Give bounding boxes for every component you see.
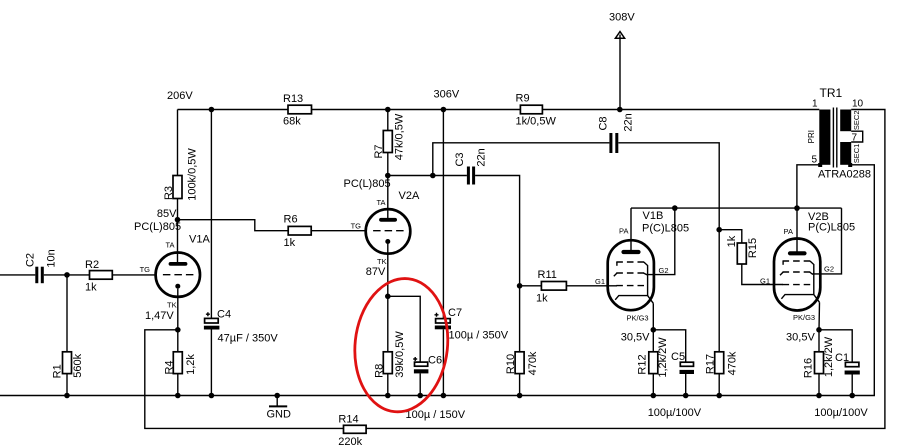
svg-text:R17: R17 [705, 354, 717, 374]
svg-text:1k: 1k [536, 293, 548, 305]
svg-text:TA: TA [165, 241, 174, 250]
tube V1B P(C)L805 pentode [595, 208, 689, 322]
svg-text:100µ/100V: 100µ/100V [648, 407, 702, 419]
wire C6 branch [388, 296, 420, 362]
resistor R10 [515, 352, 524, 374]
svg-text:220k: 220k [338, 436, 362, 447]
svg-text:TK: TK [377, 257, 387, 266]
ground GND symbol [267, 396, 292, 421]
svg-text:560k: 560k [72, 353, 84, 377]
node R15 junction [716, 227, 722, 233]
svg-text:R1: R1 [52, 364, 64, 378]
svg-text:C7: C7 [448, 307, 462, 319]
svg-text:R13: R13 [283, 93, 303, 105]
wire 85V to R6 jog [178, 220, 366, 231]
resistor R8 [383, 352, 392, 374]
svg-text:G1: G1 [595, 277, 605, 286]
svg-text:TA: TA [376, 198, 385, 207]
svg-text:C5: C5 [671, 351, 685, 363]
svg-text:PC(L)805: PC(L)805 [134, 221, 181, 233]
svg-text:206V: 206V [167, 90, 193, 102]
node rail junctions [64, 393, 855, 399]
svg-text:SEC2: SEC2 [852, 111, 861, 131]
resistor R6 [288, 226, 311, 235]
svg-text:R6: R6 [284, 214, 298, 226]
svg-text:G1: G1 [760, 277, 770, 286]
svg-text:R14: R14 [338, 413, 358, 425]
svg-text:PC(L)805: PC(L)805 [344, 178, 391, 190]
wire V2B cathode column [818, 302, 821, 395]
svg-text:1k: 1k [85, 282, 97, 294]
svg-text:SEC1: SEC1 [852, 144, 861, 164]
svg-text:V1A: V1A [189, 234, 210, 246]
svg-text:PA: PA [619, 227, 628, 236]
wire V1A plate column [177, 110, 179, 265]
wire C8 row [433, 143, 610, 176]
svg-text:R16: R16 [803, 358, 815, 378]
wire feedback loop [145, 110, 885, 429]
power 308V arrow [609, 12, 635, 113]
capacitor C4 [204, 309, 278, 345]
svg-text:C2: C2 [25, 253, 37, 267]
wire input [0, 274, 35, 276]
transformer TR1 [807, 86, 871, 181]
tube V2B P(C)L805 pentode [760, 208, 855, 322]
svg-text:470k: 470k [727, 351, 739, 375]
capacitor C6 [413, 355, 442, 374]
svg-text:V2A: V2A [399, 190, 420, 202]
resistor R1 [52, 275, 85, 396]
svg-text:TK: TK [167, 300, 177, 309]
svg-text:R8: R8 [374, 364, 386, 378]
svg-text:R9: R9 [516, 93, 530, 105]
svg-text:100µ / 350V: 100µ / 350V [449, 330, 509, 342]
capacitor C1 [835, 352, 860, 375]
svg-text:TR1: TR1 [820, 86, 843, 100]
resistor R15 [719, 230, 783, 285]
resistor R2 [90, 271, 113, 280]
node R11 junction [517, 283, 523, 289]
node V2A plate junction [385, 173, 391, 179]
svg-text:TG: TG [351, 222, 362, 231]
svg-text:1,2k/2W: 1,2k/2W [823, 336, 835, 377]
svg-text:C8: C8 [598, 116, 610, 130]
node 85V junction [175, 217, 181, 223]
svg-text:R3: R3 [163, 186, 175, 200]
svg-text:10n: 10n [46, 249, 58, 267]
svg-text:100µ/100V: 100µ/100V [814, 407, 868, 419]
tube V2A PC(L)805 triode [344, 178, 420, 278]
svg-text:R15: R15 [747, 238, 759, 258]
wire V2A cathode column [387, 242, 389, 396]
wire C7 branch [442, 110, 444, 319]
svg-text:470k: 470k [527, 351, 539, 375]
wire C4 branch [210, 110, 212, 319]
svg-text:V1B: V1B [643, 210, 664, 222]
svg-text:1,47V: 1,47V [145, 310, 174, 322]
svg-text:P(C)L805: P(C)L805 [808, 222, 855, 234]
svg-text:PRI: PRI [807, 130, 816, 143]
svg-text:10: 10 [852, 99, 864, 110]
wire C5 branch [653, 330, 685, 362]
resistor R7 [383, 131, 392, 153]
resistor R13 [288, 105, 312, 114]
svg-text:C6: C6 [428, 355, 442, 367]
ground rail [0, 165, 874, 396]
svg-text:30,5V: 30,5V [621, 332, 650, 344]
svg-text:ATRA0288: ATRA0288 [818, 169, 871, 181]
svg-text:GND: GND [267, 409, 292, 421]
wire top rail 206V/306V/308V [178, 109, 820, 111]
resistor R9 [520, 105, 542, 114]
svg-text:R12: R12 [637, 354, 649, 374]
svg-text:TG: TG [140, 265, 151, 274]
svg-text:68k: 68k [283, 116, 301, 128]
svg-text:R4: R4 [164, 360, 176, 374]
svg-text:1,2k/2W: 1,2k/2W [657, 337, 669, 378]
svg-text:C4: C4 [217, 309, 231, 321]
resistor R11 [520, 269, 617, 305]
svg-text:7: 7 [851, 133, 857, 144]
capacitor C3 [454, 148, 488, 184]
wire V1B cathode column [652, 303, 654, 395]
svg-text:5: 5 [811, 155, 817, 166]
node 306V [441, 107, 447, 113]
resistor R4 [173, 352, 182, 374]
wire C1 branch [819, 330, 852, 362]
svg-text:47k/0,5W: 47k/0,5W [394, 113, 406, 160]
svg-text:R7: R7 [373, 144, 385, 158]
svg-text:G2: G2 [659, 266, 669, 275]
capacitor C7 [435, 307, 509, 342]
capacitor C5 [671, 351, 694, 374]
wire plate rail V1B/V2B [631, 207, 842, 209]
svg-text:1,2k: 1,2k [185, 354, 197, 375]
resistor R12 [649, 352, 658, 374]
svg-text:PK/G3: PK/G3 [627, 314, 649, 323]
svg-text:47µF / 350V: 47µF / 350V [218, 332, 279, 344]
svg-text:1: 1 [812, 99, 818, 110]
svg-text:PK/G3: PK/G3 [793, 313, 815, 322]
svg-text:PA: PA [784, 227, 793, 236]
svg-text:G2: G2 [824, 265, 834, 274]
resistor R3 [173, 176, 182, 199]
svg-text:85V: 85V [157, 208, 177, 220]
svg-text:87V: 87V [366, 266, 386, 278]
wire V1B G2 connection [646, 208, 675, 275]
svg-text:R11: R11 [538, 269, 557, 281]
svg-text:306V: 306V [434, 89, 460, 101]
wire V1A cathode column [177, 289, 179, 396]
svg-text:C1: C1 [835, 352, 849, 364]
svg-text:C3: C3 [454, 152, 466, 166]
svg-text:R2: R2 [85, 259, 99, 271]
svg-text:R10: R10 [505, 354, 517, 374]
resistor R16 [815, 352, 824, 374]
svg-text:100µ / 150V: 100µ / 150V [406, 409, 466, 421]
wire R7 column [387, 110, 389, 221]
svg-text:22n: 22n [476, 148, 488, 166]
wire TR1 pin5 to plates [797, 165, 819, 208]
wire C3 row [388, 175, 467, 177]
svg-text:1k/0,5W: 1k/0,5W [516, 116, 557, 128]
resistor R14 [344, 425, 367, 433]
svg-text:1k: 1k [726, 235, 738, 247]
svg-text:30,5V: 30,5V [786, 332, 815, 344]
svg-text:308V: 308V [609, 12, 635, 24]
resistor R17 [715, 352, 724, 374]
tube V1A PC(L)805 triode [134, 221, 210, 322]
highlight red ellipse [348, 274, 454, 417]
capacitor C2 [25, 249, 58, 283]
svg-text:P(C)L805: P(C)L805 [642, 223, 689, 235]
svg-text:39k/0,5W: 39k/0,5W [394, 331, 406, 378]
capacitor C8 [598, 113, 635, 153]
wire V2B G2 connection [812, 208, 842, 274]
svg-text:22n: 22n [623, 113, 635, 131]
svg-text:100k/0,5W: 100k/0,5W [187, 148, 199, 201]
svg-text:1k: 1k [284, 237, 296, 249]
